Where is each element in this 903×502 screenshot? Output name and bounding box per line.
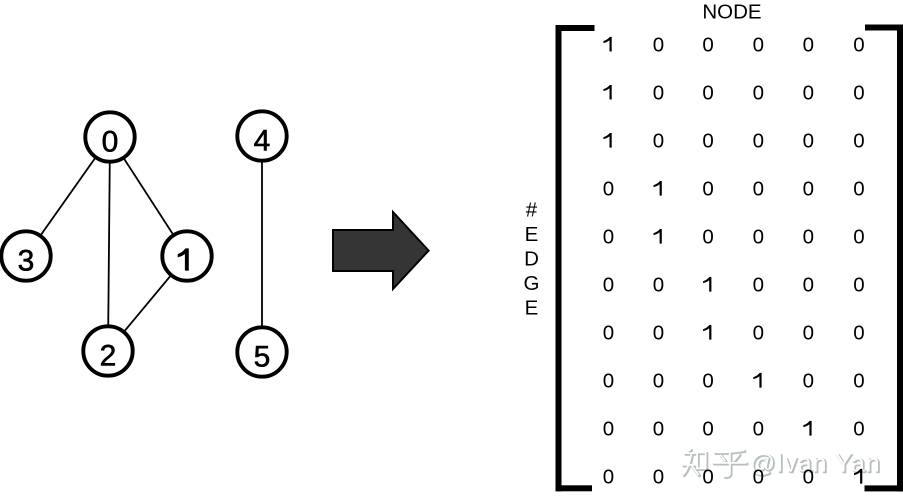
svg-text:0: 0 <box>653 34 664 57</box>
svg-text:0: 0 <box>803 274 814 297</box>
svg-text:D: D <box>524 248 539 271</box>
svg-text:0: 0 <box>803 322 814 345</box>
svg-text:2: 2 <box>100 339 117 372</box>
svg-text:0: 0 <box>702 178 713 201</box>
svg-text:0: 0 <box>853 178 864 201</box>
svg-text:0: 0 <box>803 466 814 489</box>
svg-text:0: 0 <box>702 370 713 393</box>
svg-text:0: 0 <box>753 130 764 153</box>
svg-text:0: 0 <box>853 226 864 249</box>
svg-text:0: 0 <box>653 322 664 345</box>
svg-text:0: 0 <box>853 322 864 345</box>
svg-text:0: 0 <box>753 274 764 297</box>
svg-text:0: 0 <box>803 226 814 249</box>
svg-text:0: 0 <box>603 370 614 393</box>
svg-text:0: 0 <box>853 82 864 105</box>
svg-text:0: 0 <box>753 178 764 201</box>
svg-text:0: 0 <box>853 274 864 297</box>
svg-text:E: E <box>525 297 539 320</box>
svg-text:0: 0 <box>102 125 119 158</box>
svg-text:0: 0 <box>653 418 664 441</box>
svg-text:0: 0 <box>803 34 814 57</box>
svg-text:0: 0 <box>803 370 814 393</box>
svg-text:0: 0 <box>853 370 864 393</box>
svg-text:0: 0 <box>753 466 764 489</box>
svg-text:0: 0 <box>603 226 614 249</box>
svg-text:0: 0 <box>753 322 764 345</box>
svg-text:0: 0 <box>702 130 713 153</box>
svg-text:0: 0 <box>753 34 764 57</box>
svg-text:0: 0 <box>753 226 764 249</box>
svg-text:3: 3 <box>18 244 35 277</box>
svg-text:0: 0 <box>603 418 614 441</box>
svg-text:0: 0 <box>853 418 864 441</box>
svg-text:0: 0 <box>853 34 864 57</box>
svg-text:0: 0 <box>702 34 713 57</box>
svg-text:0: 0 <box>603 178 614 201</box>
svg-text:#: # <box>526 199 538 222</box>
svg-text:0: 0 <box>803 82 814 105</box>
svg-text:0: 0 <box>702 82 713 105</box>
svg-text:0: 0 <box>753 82 764 105</box>
svg-text:0: 0 <box>653 130 664 153</box>
svg-text:0: 0 <box>753 418 764 441</box>
svg-text:0: 0 <box>702 226 713 249</box>
svg-text:0: 0 <box>653 370 664 393</box>
svg-text:0: 0 <box>603 466 614 489</box>
svg-text:0: 0 <box>803 130 814 153</box>
svg-text:0: 0 <box>702 466 713 489</box>
svg-text:E: E <box>525 223 539 246</box>
svg-text:0: 0 <box>653 466 664 489</box>
svg-text:0: 0 <box>702 418 713 441</box>
svg-text:0: 0 <box>603 274 614 297</box>
svg-text:0: 0 <box>853 130 864 153</box>
svg-text:NODE: NODE <box>702 1 761 24</box>
svg-text:0: 0 <box>653 82 664 105</box>
svg-text:0: 0 <box>603 322 614 345</box>
svg-text:4: 4 <box>254 124 271 157</box>
svg-text:5: 5 <box>254 340 271 373</box>
svg-text:0: 0 <box>653 274 664 297</box>
svg-text:G: G <box>524 272 540 295</box>
svg-text:0: 0 <box>803 178 814 201</box>
